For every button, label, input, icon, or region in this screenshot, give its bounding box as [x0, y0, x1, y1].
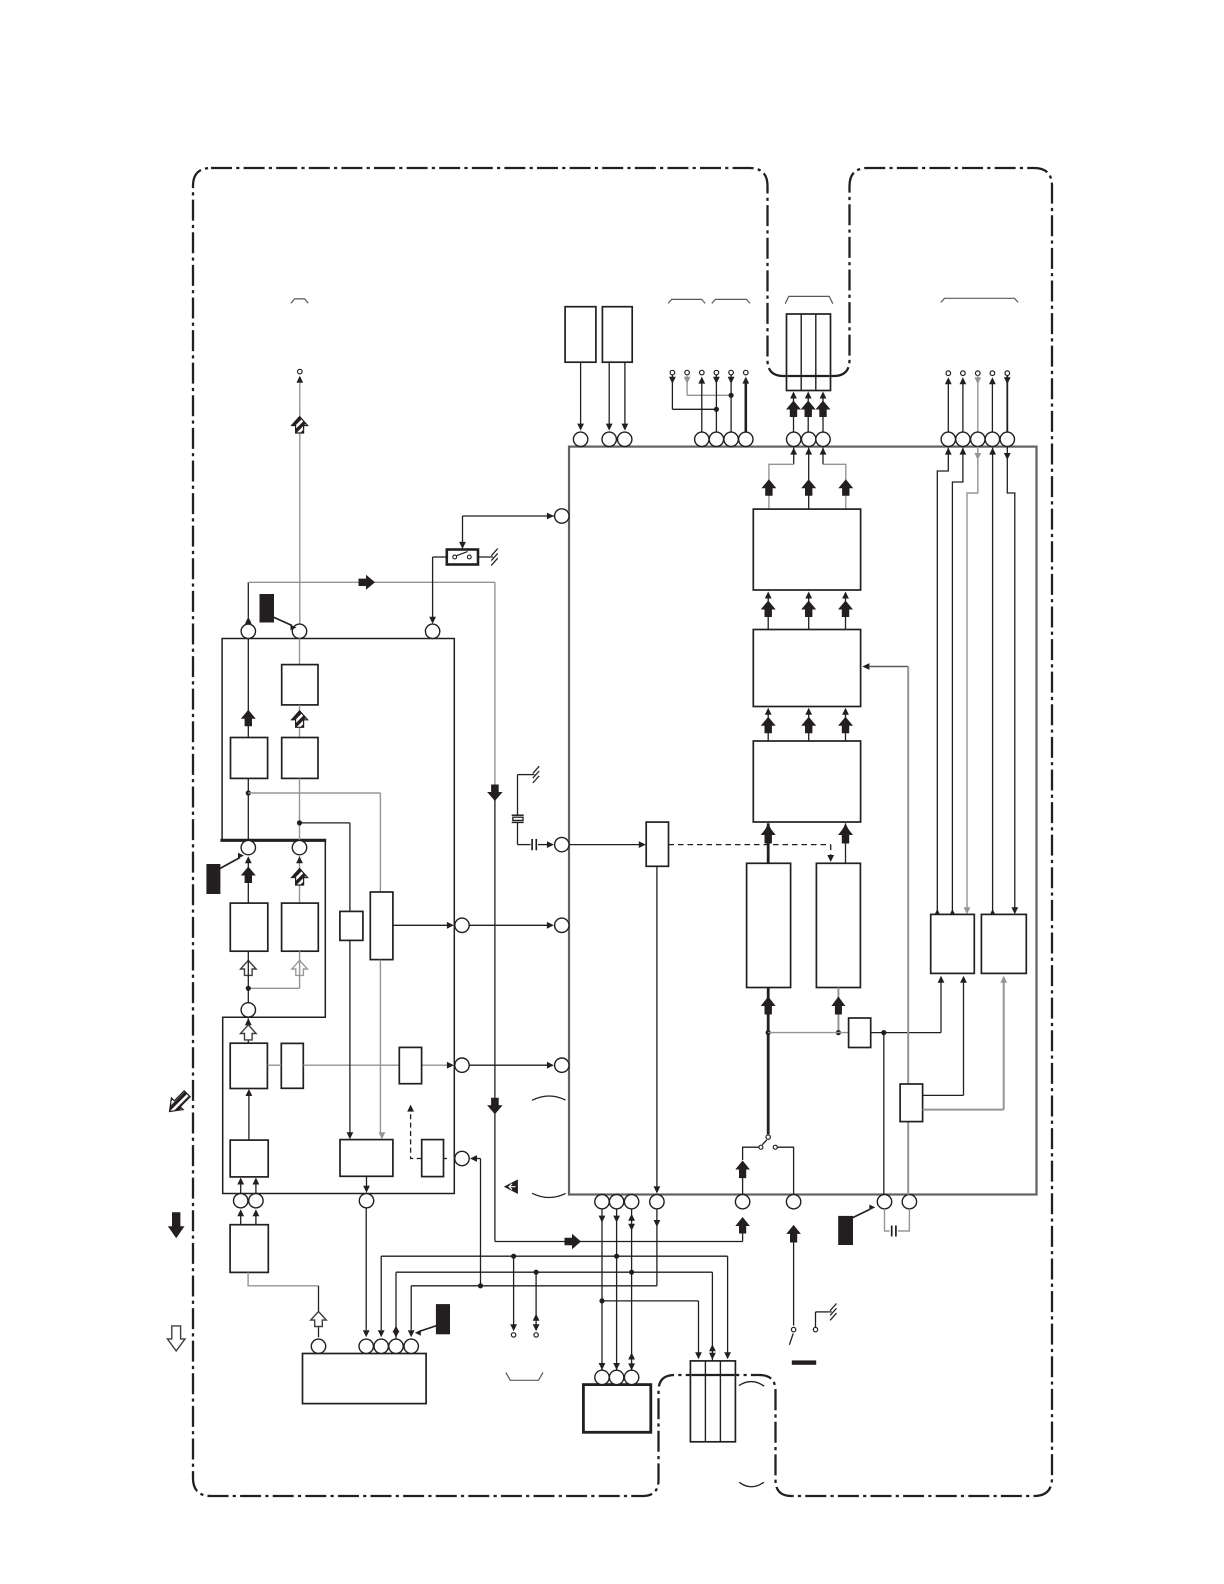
wire gray H down to x318	[248, 1272, 318, 1285]
black callout label box 2	[206, 864, 220, 894]
arrowhead down into K pin4	[408, 1330, 415, 1337]
switch S1 lever	[456, 552, 467, 556]
bus line 1 y1256	[381, 1255, 727, 1257]
bus line 3 y1286	[411, 1285, 657, 1287]
wire stub to x480	[477, 1158, 481, 1160]
arrowhead up t6	[742, 377, 749, 384]
IC top pin x701	[695, 432, 709, 446]
wire crystal leg bottom	[517, 823, 519, 845]
right terminal r4	[990, 371, 995, 376]
thick up arrow to CN1 x823	[816, 401, 831, 418]
wire y823 to small box	[300, 822, 350, 824]
IC tall block BLK4	[747, 863, 791, 987]
arrowhead down inside x1007	[1004, 453, 1011, 460]
wire boxG to pin y1158	[444, 1158, 448, 1160]
wire gray elbow to BLK1 right	[823, 464, 846, 509]
IC small box on y1033	[849, 1018, 871, 1048]
board bottom pin x366	[359, 1194, 373, 1208]
thick up arrow to CN1 x808	[801, 401, 816, 418]
box M pin a	[595, 1370, 609, 1384]
notch block C1	[230, 903, 267, 951]
arrowhead into R2 top b	[1011, 907, 1018, 914]
wire riser down to pin884	[883, 1033, 885, 1195]
IC top pin x977	[971, 432, 985, 446]
open arrow boxA->pin	[241, 1025, 257, 1040]
wire bus2 down to K pin3	[395, 1272, 397, 1339]
arrowhead up r962	[960, 377, 967, 384]
wire t5 to IC pin	[730, 375, 732, 432]
wire boxA to notch pin bottom	[247, 1018, 249, 1043]
wire x350 small box down to boxE	[349, 940, 351, 1133]
wire pin to boxD a	[240, 1184, 242, 1194]
box K pin x381	[374, 1339, 388, 1353]
wire x963 staircase to R1	[952, 448, 963, 915]
wire gray x978 staircase to R1	[967, 447, 978, 908]
IC top pin x794	[787, 432, 801, 446]
thick arrow BLK4->BLK3	[761, 826, 776, 844]
bracket label over CN1	[785, 296, 833, 303]
arrowhead down r977	[974, 377, 981, 384]
board box G on y1158	[422, 1140, 444, 1177]
thick arrow BLK2->BLK1 x845	[838, 601, 853, 618]
arrowhead into R1 top b	[949, 909, 956, 916]
IC small box N on x908	[900, 1084, 923, 1122]
wire H to pin b	[255, 1216, 257, 1225]
arc top right of CN2 grommet	[739, 1382, 764, 1387]
connector terminal t1	[670, 370, 675, 375]
box K pin x411	[404, 1339, 418, 1353]
wire BLK5 to BLK3	[845, 823, 847, 863]
ground chassis symbol at S2	[828, 1304, 836, 1321]
wire x809 straight to BLK1	[808, 448, 810, 509]
notch pin circle bottom x248	[241, 1003, 255, 1017]
arrowhead down x632 bottom b	[628, 1363, 635, 1370]
wire gray elbow to BLK1 left	[769, 464, 794, 509]
junction x617/bus1	[614, 1254, 619, 1259]
arrowhead into BLK2 right side	[862, 663, 869, 670]
arrowhead into boxD bottom b	[253, 1178, 260, 1185]
connector terminal t6	[744, 370, 749, 375]
black callout label box 4	[838, 1216, 853, 1245]
thick arrow BLK3->BLK2 x768	[761, 717, 776, 734]
margin hatched signal arrow (down-left)	[164, 1088, 193, 1117]
board block boxE	[340, 1140, 393, 1177]
block top box B	[602, 307, 632, 363]
arrowhead down r1007	[1004, 377, 1011, 384]
junction x632/bus2	[629, 1270, 634, 1275]
wire BLK3 to BLK2 x845	[845, 714, 847, 742]
thick down arrow on x495 lower	[487, 1098, 503, 1115]
IC top pin x716	[709, 432, 723, 446]
board pin circle (RF in)	[292, 624, 306, 638]
arrowhead up r992	[989, 377, 996, 384]
margin solid down arrow	[168, 1212, 185, 1238]
IC right block R2	[981, 914, 1026, 973]
arrowhead into BLK2 bottom x845	[842, 708, 849, 715]
wire BLK2 to BLK1 x845	[845, 598, 847, 630]
wire r948 to IC pin	[947, 384, 949, 433]
wire x514 down to test point	[513, 1256, 515, 1325]
wire boxB down right	[624, 362, 626, 424]
junction x480/bus3	[478, 1283, 483, 1288]
hatched RF signal arrow	[292, 417, 308, 434]
wire t1 to junction on t4	[672, 408, 716, 410]
wire C1 down to notch pin2	[247, 951, 249, 1003]
junction dot t1/t4	[714, 407, 719, 412]
arrowhead down x602 bottom	[599, 1363, 606, 1370]
arrowhead into switch box	[459, 542, 466, 549]
arrowhead up inside IC x809	[805, 448, 812, 455]
notch pin circle x299	[292, 840, 306, 854]
block top box A	[565, 307, 596, 363]
hatched arrow B1->B3	[292, 711, 308, 728]
arrowhead up into notch pin x299	[296, 856, 303, 863]
wire gray x380 tall box down to boxE	[379, 960, 381, 1134]
arrowhead up inside x963	[960, 448, 967, 455]
wire BLK3 to BLK2 x808	[808, 714, 810, 742]
wire pin248 up to junction	[247, 582, 249, 617]
wire capacitor to pin909	[898, 1209, 910, 1231]
wire dashed down to BLK5	[830, 845, 832, 857]
bracket label mid group B	[712, 299, 750, 303]
arrowhead up inside IC x823	[820, 448, 827, 455]
arrowhead into test point b	[533, 1324, 540, 1331]
dashed arrowhead up	[407, 1105, 414, 1112]
arrowhead up t3	[698, 377, 705, 384]
callout 2 leader arrowhead	[238, 853, 244, 859]
margin open down arrow	[167, 1326, 185, 1351]
arrowhead into CN2 col1	[695, 1352, 702, 1359]
switch S2 contact b	[813, 1327, 817, 1331]
bottom block K	[303, 1354, 427, 1404]
capacitor plate right	[535, 839, 537, 850]
wire x992 straight to R2	[992, 448, 994, 915]
arrowhead up into notch pin x248	[245, 856, 252, 863]
wire r992 to IC pin	[991, 384, 993, 433]
wire dashed feedback from boxG	[411, 1110, 422, 1159]
IC bottom pin x742	[735, 1195, 749, 1209]
arc bottom of cable bubble	[532, 1193, 566, 1197]
wire osc pin to OSC block	[569, 844, 640, 846]
bottom block M (thick)	[583, 1385, 650, 1433]
arrowhead up inside x948	[945, 448, 952, 455]
antenna stub terminal	[298, 369, 303, 374]
IC top pin x625	[618, 432, 632, 446]
dashed arrowhead into BLK5 top	[827, 855, 834, 862]
arrowhead up r948	[945, 377, 952, 384]
junction dot C1/C2 join	[246, 986, 251, 991]
lower block boxB	[281, 1043, 303, 1088]
box M pin b	[609, 1370, 623, 1384]
IC top pin x809	[802, 432, 816, 446]
wire pin617 down to box M	[616, 1209, 618, 1370]
wire down to pin 432	[432, 557, 434, 622]
thick arrow into BLK1 x808	[801, 479, 816, 496]
thick down arrow on x495 upper	[487, 785, 503, 802]
wire BLK2 right to x908	[869, 666, 908, 668]
board block B2	[231, 738, 268, 779]
wire t2 to junction on t5	[687, 394, 731, 396]
wire r977 to IC pin	[977, 376, 979, 433]
ground chassis symbol at crystal	[531, 766, 539, 783]
thick arrow on bold wire	[761, 997, 776, 1015]
thick arrow BLK2->BLK1 x768	[761, 601, 776, 618]
right terminal r2	[961, 371, 966, 376]
test point terminal b	[534, 1333, 538, 1337]
test point terminal a	[511, 1333, 515, 1337]
wire BLK2 to BLK1 x768	[767, 598, 769, 630]
chassis dash-dot border outline with top and bottom connector notches	[193, 168, 1052, 1496]
thick up arrow into pin 742	[735, 1217, 750, 1234]
box K pin x318	[311, 1339, 325, 1353]
wire gray x380 down to tall box	[379, 793, 381, 892]
wire riser up to R1	[940, 982, 942, 1033]
thick right arrow on y582 wire	[359, 575, 376, 590]
arrowhead down into K pin2	[378, 1330, 385, 1337]
wire boxB to board pin y1065	[303, 1064, 447, 1066]
wire cap to pin	[538, 844, 548, 846]
wire pin to boxD b	[255, 1184, 257, 1194]
arrowhead into BLK1 bottom x845	[842, 592, 849, 599]
wire t2 down gray	[686, 375, 688, 395]
CN1 column divider 2	[815, 314, 817, 391]
thick up arrow inside IC at pin742	[735, 1161, 750, 1179]
arrowhead down t2	[684, 377, 691, 384]
thick up arrow to CN1 x793	[786, 401, 801, 418]
arrowhead into R2 bottom	[1000, 976, 1007, 983]
wire BLK2 to BLK1 x808	[808, 598, 810, 630]
wire pin794 down to switch	[793, 1243, 795, 1326]
wire CN1 col x823	[822, 398, 824, 433]
thick arrow into BLK1 x768	[761, 479, 776, 496]
arrowhead down into K pin1	[363, 1330, 370, 1337]
wire riser to R1 b	[963, 982, 965, 1096]
wire t4 to IC pin	[715, 375, 717, 432]
capacitor C plate right	[895, 1226, 897, 1237]
arrowhead up x632 top	[628, 1214, 635, 1221]
wire into pin742	[742, 1177, 744, 1195]
notch pin circle x248	[241, 840, 255, 854]
junction y1033/pin884 riser	[881, 1030, 886, 1035]
IC right block R1	[931, 914, 975, 973]
arrowhead down x632 top2	[628, 1224, 635, 1231]
box M pin c	[624, 1370, 638, 1384]
CN2 crossing border line	[691, 1374, 734, 1376]
wire to ground	[478, 556, 490, 558]
IC block BLK3	[753, 741, 860, 822]
capacitor plate left	[531, 839, 533, 850]
IC top pin x1007	[1000, 432, 1014, 446]
wire C2 to notch pin	[299, 856, 301, 903]
junction x536/bus2	[534, 1270, 539, 1275]
arrowhead into R1 bottom b	[960, 976, 967, 983]
switch S2 lever	[789, 1334, 793, 1345]
open arrow up on x318 wire	[311, 1312, 327, 1327]
wire B3 down to notch pin	[299, 778, 301, 840]
wire pin299 down to B1	[299, 639, 301, 665]
arrowhead up on K pin3 wire	[393, 1326, 400, 1333]
wire pin884 to capacitor	[885, 1209, 890, 1231]
arrowhead down t4	[713, 377, 720, 384]
wire x480 down to bus	[480, 1159, 482, 1286]
junction dot on B2 output	[246, 790, 251, 795]
wire x536 down to test point	[535, 1272, 537, 1325]
lower block boxA	[230, 1043, 267, 1088]
wire stub under pin 742	[742, 1234, 744, 1242]
right terminal r1	[946, 371, 951, 376]
IC bottom pin x656	[650, 1195, 664, 1209]
IC top pin x731	[724, 432, 738, 446]
board small box on x350 line	[340, 911, 363, 940]
wire pin632 down to box M	[631, 1209, 633, 1370]
arrowhead up to terminal	[296, 376, 303, 383]
crystal plate top	[512, 814, 524, 816]
arrowhead into boxE b	[379, 1132, 386, 1139]
arrowhead into IC osc pin	[547, 841, 554, 848]
wire from IC pin y516	[548, 515, 562, 517]
IC left pin y845 (osc)	[555, 837, 569, 851]
arrowhead into BLK1 bottom x808	[805, 592, 812, 599]
arrowhead into board pin y925	[447, 922, 454, 929]
notch block C2	[282, 903, 319, 951]
wire pin-to-IC y1065	[469, 1064, 547, 1066]
wire gray joining C1/C2	[248, 987, 299, 989]
top connector CN1	[787, 314, 831, 391]
wire pin602 down to box M	[601, 1209, 603, 1370]
CN1 crossing border line	[788, 375, 830, 377]
bracket label mid group A	[668, 299, 705, 303]
IC top pin x609	[602, 432, 616, 446]
wire bus1 down to K pin2	[380, 1256, 382, 1330]
service switch box S1	[447, 550, 478, 565]
arrowhead down x602 top	[599, 1216, 606, 1223]
IC left pin y1065	[555, 1058, 569, 1072]
wire long vertical x495 lower	[494, 798, 496, 1242]
arrowhead into OSC block	[639, 841, 646, 848]
callout 3 leader arrowhead	[415, 1330, 421, 1336]
bracket label right group	[941, 298, 1018, 302]
wire y516 horizontal	[463, 515, 548, 517]
IC bottom pin x631	[624, 1195, 638, 1209]
wire switch to vertical	[433, 556, 447, 558]
IC block BLK1 (chroma/video)	[753, 509, 860, 590]
switch S2 contact a	[791, 1327, 795, 1331]
wire board pin to K pin1	[365, 1208, 367, 1330]
left sub-board outline with notch	[222, 639, 454, 1194]
board pin circle (IF out)	[241, 624, 255, 638]
bus1 riser to CN2 col3	[727, 1256, 729, 1353]
IC bottom pin x909	[902, 1195, 916, 1209]
board right pin y1158	[455, 1151, 469, 1165]
wire boxB down left	[608, 362, 610, 424]
junction BLK5/y1033	[836, 1030, 841, 1035]
arrowhead down x617 bottom	[613, 1363, 620, 1370]
IC top pin x580	[573, 432, 587, 446]
arrowhead into BLK3 bottom right	[842, 823, 849, 830]
junction x514/bus1	[511, 1254, 516, 1259]
wire contact b up	[815, 1312, 817, 1327]
wire boxA down	[580, 362, 582, 424]
arrowhead up into CN1 col x808	[805, 392, 812, 399]
main IC block U1 outline	[569, 447, 1037, 1195]
IC top pin x992	[985, 432, 999, 446]
arrowhead down into CN2 col2	[709, 1353, 716, 1360]
IC top pin x962	[956, 432, 970, 446]
thick right arrow on y1241	[565, 1234, 582, 1249]
wire B1 to B3	[299, 705, 301, 738]
arrowhead into R1 top a	[934, 909, 941, 916]
wire y1033 box S1 to riser	[871, 1032, 941, 1034]
wire boxE to bottom pin	[366, 1176, 368, 1186]
crystal plate bottom	[512, 821, 524, 823]
arrowhead down into K pin3	[393, 1331, 400, 1338]
wire crystal to cap	[518, 844, 531, 846]
arrowhead into IC pin y925	[547, 922, 554, 929]
thick up arrow into pin 794	[786, 1225, 801, 1243]
arrowhead into boxD bottom a	[237, 1178, 244, 1185]
IC bottom pin x884	[877, 1195, 891, 1209]
arrowhead up into pin x256	[253, 1209, 260, 1216]
wire S3 left contact to pin742	[743, 1147, 759, 1160]
open arrow under C2	[292, 960, 308, 975]
wire x350 down to small box	[349, 823, 351, 912]
board tall box on x380 line	[370, 892, 393, 960]
IC top pin x823	[816, 432, 830, 446]
wire t3 to IC pin	[701, 383, 703, 432]
arrowhead into bottom pin x366	[363, 1186, 370, 1193]
wire antenna line down to board pin	[299, 383, 301, 624]
wire bus3 down to K pin4	[410, 1286, 412, 1330]
CN2 column divider 1	[704, 1361, 706, 1442]
ground chassis symbol at switch	[490, 549, 498, 566]
arrowhead down t1	[669, 377, 676, 384]
wire gray y793 to tall box	[248, 792, 380, 794]
wire OSC down to IC bottom pin	[656, 866, 658, 1192]
arrowhead into IC pin y1065	[547, 1062, 554, 1069]
wire x1007 staircase to R2	[1007, 447, 1015, 908]
bus2 riser to CN2 col2	[711, 1272, 713, 1361]
connector terminal t5	[729, 370, 734, 375]
wire x823 down inside IC	[822, 448, 824, 465]
box K pin x366	[359, 1339, 373, 1353]
arrowhead up x632 bottom a	[628, 1353, 635, 1360]
wire long vertical x495 upper gray	[494, 582, 496, 801]
board right pin y925	[455, 918, 469, 932]
board pin circle (switch ctl)	[425, 624, 439, 638]
arc top of cable bubble	[532, 1096, 565, 1100]
block H below board	[230, 1225, 268, 1273]
left board bold bottom edge segment	[220, 839, 326, 842]
capacitor C plate left	[891, 1226, 893, 1237]
arrowhead up on x536 wire	[533, 1314, 540, 1321]
switch S3 common contact	[766, 1135, 770, 1139]
CN1 column divider 1	[800, 314, 802, 391]
arrowhead up into pin x241	[237, 1209, 244, 1216]
right terminal r5	[1005, 371, 1010, 376]
wire gray x908 down to pin909	[907, 667, 909, 1195]
wire x948 staircase to R1	[937, 448, 948, 915]
feedback page-link triangle	[504, 1179, 518, 1194]
thick arrow C1->pin248	[241, 867, 256, 884]
wire r1007 to IC pin	[1006, 376, 1008, 433]
white mini arrow inside triangle	[509, 1184, 516, 1190]
wire pin-to-IC y925	[469, 924, 547, 926]
arrowhead into R1 bottom a	[938, 976, 945, 983]
arrowhead into BLK1 bottom x768	[765, 592, 772, 599]
arrowhead into CN2 col3	[724, 1352, 731, 1359]
IC bottom pin x602	[595, 1195, 609, 1209]
connector terminal t3	[700, 370, 705, 375]
